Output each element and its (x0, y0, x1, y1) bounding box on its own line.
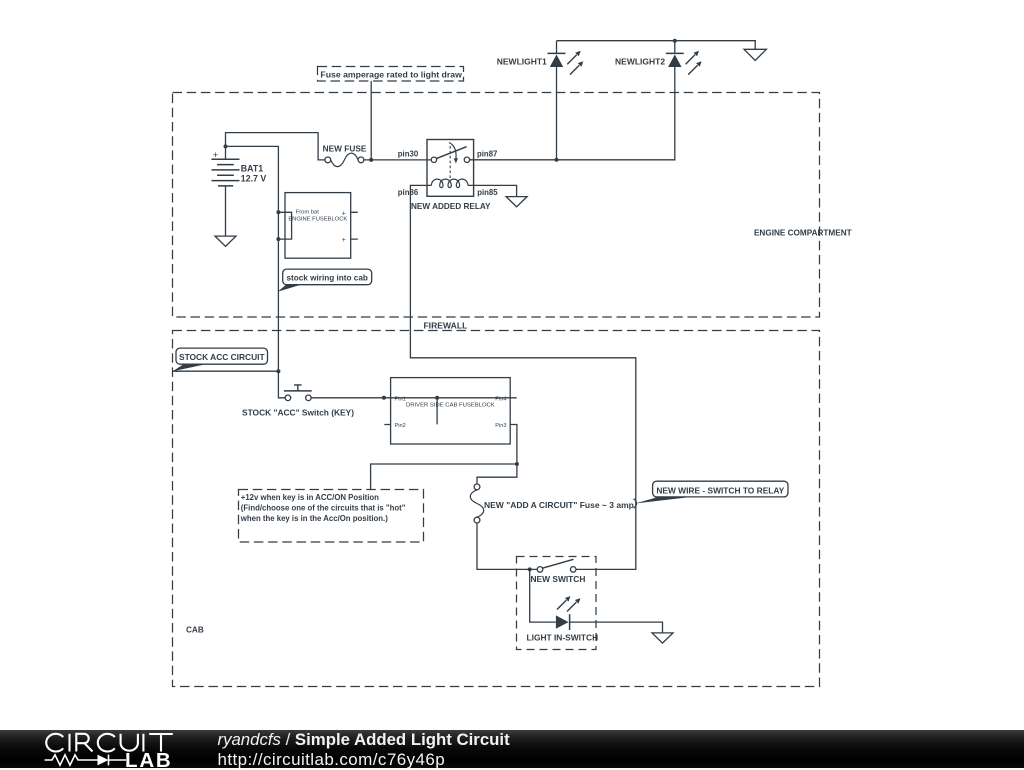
wire stock acc circuit stub (173, 370, 279, 372)
callout NEW WIRE - SWITCH TO RELAY (634, 481, 788, 508)
switch NEW SWITCH (531, 559, 586, 584)
node Pin1 connection (382, 396, 386, 400)
switch STOCK ACC (KEY) pushbutton (242, 385, 354, 418)
LED NEWLIGHT2 (615, 41, 702, 75)
wire switch to fuseblock Pin1 through to Pin4 stub (311, 397, 517, 399)
footer bar (0, 730, 1024, 769)
wire relay pin85 to ground (474, 185, 517, 196)
wire relay pin87 to LED2 anode (470, 67, 675, 160)
svg-text:12.7 V: 12.7 V (241, 173, 267, 183)
node LED2 top junction (673, 39, 677, 43)
node stock acc junction (276, 369, 280, 373)
note box Fuse amperage rated to light draw (318, 67, 464, 82)
callout STOCK ACC CIRCUIT (173, 348, 268, 371)
wire battery plus node to engine fuseblock vertical, down through firewall to ACC switch (226, 146, 286, 397)
ground (lights) (744, 49, 766, 60)
svg-text:Fuse amperage rated to light d: Fuse amperage rated to light draw (320, 70, 462, 80)
fuse NEW FUSE (323, 144, 367, 167)
LED LIGHT IN-SWITCH (527, 596, 599, 643)
node fuseblock pin bottom (276, 237, 280, 241)
ground (light in-switch) (652, 633, 673, 643)
node new switch left junction (528, 567, 532, 571)
wire switch junction down to LED LIGHT IN-SWITCH (530, 569, 556, 622)
svg-text:NEW SWITCH: NEW SWITCH (531, 574, 586, 584)
fuse NEW ADD A CIRCUIT (470, 484, 634, 523)
svg-text:CAB: CAB (186, 626, 204, 635)
svg-text:NEWLIGHT2: NEWLIGHT2 (615, 57, 665, 67)
svg-text:Pin1: Pin1 (395, 396, 406, 402)
wire LED tops to ground (557, 41, 756, 50)
svg-text:FIREWALL: FIREWALL (423, 321, 467, 331)
footer title (218, 730, 510, 750)
callout stock wiring into cab (278, 269, 372, 292)
svg-text:Pin4: Pin4 (495, 396, 506, 402)
svg-text:stock wiring into cab: stock wiring into cab (286, 274, 367, 283)
node battery plus junction (224, 144, 228, 148)
note box +12v when key is in ACC/ON Position (239, 490, 424, 543)
SECTION1 (398, 39, 767, 570)
footer url (218, 750, 446, 770)
svg-text:LIGHT IN-SWITCH: LIGHT IN-SWITCH (527, 633, 599, 643)
LED NEWLIGHT1 (497, 41, 584, 160)
svg-text:pin85: pin85 (477, 188, 498, 197)
relay NEW ADDED RELAY (427, 140, 474, 197)
svg-text:(Find/choose one of the circui: (Find/choose one of the circuits that is… (241, 504, 406, 513)
node fuseblock internal junction (435, 396, 439, 400)
wire fuseblock Pin3 down to fuse (477, 425, 517, 485)
wire battery plus up and over to fuse left terminal (226, 133, 325, 160)
svg-text:+: + (342, 237, 346, 244)
svg-text:STOCK "ACC" Switch (KEY): STOCK "ACC" Switch (KEY) (242, 407, 354, 417)
svg-text:NEW WIRE - SWITCH TO RELAY: NEW WIRE - SWITCH TO RELAY (656, 485, 784, 495)
svg-text:pin30: pin30 (398, 149, 419, 158)
wire note box to fuse output node (370, 81, 372, 160)
battery BAT1 (212, 150, 267, 186)
svg-text:NEW FUSE: NEW FUSE (323, 144, 367, 154)
svg-text:NEW "ADD A CIRCUIT" Fuse ~ 3 a: NEW "ADD A CIRCUIT" Fuse ~ 3 amp (484, 500, 634, 510)
ground (battery) (215, 236, 236, 246)
wire LED to ground (570, 622, 663, 633)
wire relay pin86 down through firewall to NEW SWITCH right terminal (410, 185, 635, 569)
node Pin3 wire junction (515, 462, 519, 466)
wire fuse to NEW SWITCH left terminal (477, 523, 537, 569)
SECTION2 (173, 348, 789, 649)
subcircuit ENGINE FUSEBLOCK (278, 193, 357, 259)
svg-text:ENGINE FUSEBLOCK: ENGINE FUSEBLOCK (288, 216, 347, 222)
svg-text:From bat: From bat (296, 210, 320, 216)
ground (relay pin85) (506, 197, 527, 207)
svg-text:+12v when key is in ACC/ON Pos: +12v when key is in ACC/ON Position (241, 493, 379, 502)
region box ENGINE COMPARTMENT (173, 93, 820, 318)
region box NEW SWITCH assembly (517, 557, 597, 650)
region box CAB (173, 331, 820, 687)
node LED1 pin87 junction (555, 158, 559, 162)
svg-text:pin86: pin86 (398, 188, 419, 197)
svg-text:when the key is in the Acc/On: when the key is in the Acc/On position.) (240, 514, 388, 523)
wire battery to ground (225, 186, 227, 236)
svg-text:STOCK ACC CIRCUIT: STOCK ACC CIRCUIT (179, 352, 265, 362)
node fuse output junction (369, 158, 373, 162)
svg-text:pin87: pin87 (477, 149, 497, 158)
svg-text:BAT1: BAT1 (241, 163, 263, 173)
svg-text:NEWLIGHT1: NEWLIGHT1 (497, 57, 547, 67)
svg-text:NEW ADDED RELAY: NEW ADDED RELAY (411, 202, 491, 211)
wire fuse to relay pin30 (364, 159, 431, 161)
svg-text:Pin3: Pin3 (495, 423, 506, 429)
wire junction to +12v note box (371, 464, 517, 490)
svg-text:+: + (213, 150, 219, 161)
svg-text:LAB: LAB (125, 749, 173, 769)
subcircuit DRIVER SIDE CAB FUSEBLOCK (384, 378, 510, 444)
node fuseblock pin top (276, 210, 280, 214)
CircuitLab logo (0, 730, 210, 769)
svg-text:DRIVER SIDE CAB FUSEBLOCK: DRIVER SIDE CAB FUSEBLOCK (406, 403, 495, 409)
svg-text:Pin2: Pin2 (395, 423, 406, 429)
svg-text:ENGINE COMPARTMENT: ENGINE COMPARTMENT (754, 228, 852, 237)
